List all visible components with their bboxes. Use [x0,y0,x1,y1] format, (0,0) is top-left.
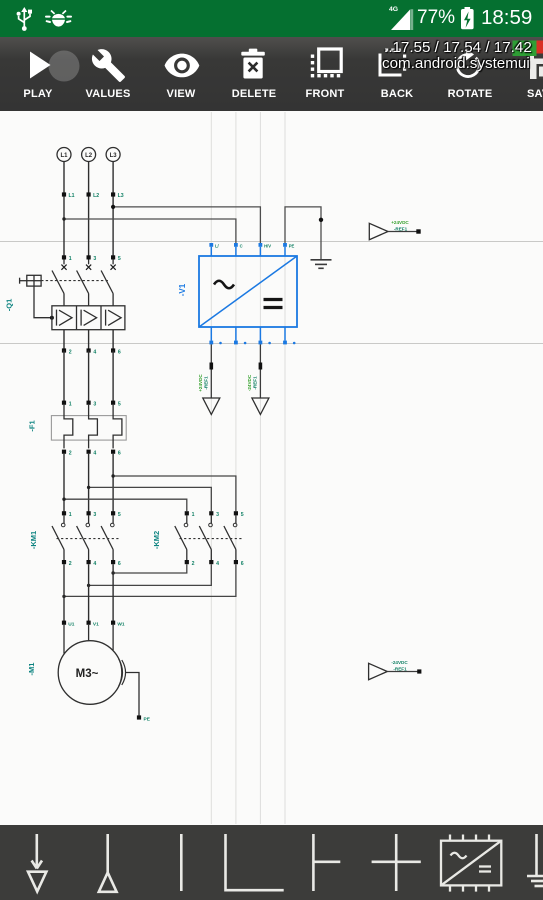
svg-text:-Q1: -Q1 [5,299,14,312]
svg-text:6: 6 [118,561,121,567]
bottom toolbar background [0,825,543,900]
Q1 linkage dashed [41,280,108,282]
wire F1 to KM1 phase 3 [112,454,114,514]
KM2 pin 1 [185,511,195,518]
bottom toolbar tee icon [313,834,340,891]
toolbar view eye icon [165,54,200,78]
KM1 pin 3 [87,511,97,518]
F1 enclosure [51,416,126,441]
circuit breaker Q1 [5,255,125,355]
KM2 pole 3 [224,515,237,560]
F1 pin 2 [62,450,72,457]
wire branch L1 to V1 pin N [62,217,236,243]
status bar right text [417,7,455,29]
F1 heater element 3 [113,405,122,449]
F1 heater element 2 [89,405,98,449]
svg-text:2: 2 [69,451,72,457]
bottom toolbar earth electrode icon [99,834,117,892]
svg-text:1: 1 [69,256,72,262]
toolbar back icon [380,49,406,76]
M1 pin V1 [87,621,100,628]
toolbar save icon partial [530,50,543,79]
svg-text:-V1: -V1 [178,283,187,296]
KM1 pin 1 [62,511,72,518]
wire KM1 to motor W [112,564,114,623]
node L3 [111,192,124,199]
wire phase L1 vertical [63,162,65,258]
KM2 pin 6 [234,560,244,567]
M1 pin W1 [111,621,125,628]
svg-text:3: 3 [93,402,96,408]
svg-text:5: 5 [118,402,121,408]
svg-text:4: 4 [216,561,219,567]
wire phase L2 vertical [88,162,90,258]
bottom toolbar corner icon [226,834,284,890]
svg-text:-F1: -F1 [28,420,37,431]
KM1 pin 4 [87,560,97,567]
svg-text:1: 1 [69,402,72,408]
status bar background [0,0,543,37]
KM2 pole 2 [199,515,212,560]
svg-text:4: 4 [93,349,96,355]
Q1 pole 2 contact [77,260,92,306]
M1 lead W [112,625,114,650]
terminal L2 [82,148,96,162]
svg-text:-24VDC: -24VDC [391,660,408,665]
Q1 pin 1 [62,255,72,262]
svg-text:6: 6 [241,561,244,567]
svg-text:1: 1 [69,512,72,518]
KM1 pole 1 [52,515,65,560]
svg-text:V1: V1 [93,622,99,628]
toolbar rotate icon [457,49,479,77]
KM2 pin 4 [209,560,219,567]
svg-text:6: 6 [118,349,121,355]
svg-text:3: 3 [93,256,96,262]
V1 top pin 3 [259,243,272,256]
svg-text:L3: L3 [110,153,118,159]
V1 top pin PE [283,243,294,256]
wire KM1 to motor U [63,564,65,623]
svg-text:L2: L2 [85,153,93,159]
wire -24VDC output [259,344,263,397]
svg-text:-REF1: -REF1 [203,376,208,390]
wire branch phase2 to KM2 pin3 [87,486,211,512]
KM1 pole 3 [101,515,114,560]
KM2 linkage dashed [180,538,244,540]
F1 pin 4 [87,450,97,457]
toolbar labels [0,88,83,100]
ground [311,260,332,269]
wire V1 PE to ground [285,207,323,260]
svg-text:-REF1: -REF1 [393,666,407,671]
status bar signal triangle [391,9,413,30]
svg-text:-REF1: -REF1 [394,226,408,231]
F1 pin 3 [87,401,97,408]
Q1 operator link wire [34,286,54,320]
svg-text:-KM2: -KM2 [152,531,161,549]
V1 top pin 1 [209,243,219,256]
potential arrow down -24VDC [247,374,269,414]
motor M1 [27,621,151,723]
Q1 trip unit box [52,306,125,330]
svg-text:3: 3 [93,512,96,518]
F1 pin 5 [111,401,121,408]
F1 heater element 1 [64,405,73,449]
svg-text:-KM1: -KM1 [29,531,38,549]
KM1 pole 2 [77,515,90,560]
M1 PE arcs [119,659,123,687]
svg-text:-24VDC: -24VDC [247,374,252,391]
M1 pin U1 [62,621,75,628]
thermal overload relay F1 [28,401,127,457]
canvas [0,111,543,825]
bottom toolbar ground icon partial [527,834,543,886]
F1 pin 6 [111,450,121,457]
Q1 pin 2 [62,330,72,356]
V1 top pin 2 [234,243,243,256]
svg-text:1: 1 [192,512,195,518]
svg-text:PE: PE [289,243,295,248]
M1 lead U [63,625,65,654]
top toolbar background [0,37,543,111]
svg-text:L2: L2 [93,193,99,199]
KM1 pin 5 [111,511,121,518]
svg-text:H/V: H/V [264,243,271,248]
wire Q1 to F1 phase 2 [88,351,90,403]
svg-text:2: 2 [69,561,72,567]
KM2 pin 3 [209,511,219,518]
Q1 pole 1 contact [52,260,67,306]
toolbar delete trash icon [241,49,264,79]
Q1 pin 5 [111,255,121,262]
wire KM2 pin4 crossover to V [87,564,211,587]
KM2 pole 1 [175,515,188,560]
svg-text:4: 4 [93,451,96,457]
overlay green highlight [513,41,537,57]
wire phase L3 vertical [112,162,114,258]
svg-text:5: 5 [118,512,121,518]
wire branch phase3 to KM2 pin5 [111,474,235,511]
KM2 pin 2 [185,560,195,567]
svg-text:2: 2 [69,349,72,355]
V1 bottom pin 2 [234,327,246,344]
Q1 pin 6 [111,330,121,356]
KM1 pin 2 [62,560,72,567]
svg-text:L1: L1 [60,153,68,159]
svg-text:5: 5 [118,256,121,262]
potential arrow down +24VDC [198,374,220,415]
svg-text:5: 5 [241,512,244,518]
F1 pin 1 [62,401,72,408]
svg-text:-REF1: -REF1 [252,376,257,390]
profiler overlay line 2 [382,55,530,72]
V1 bottom pin 1 [209,327,221,344]
toolbar front icon [311,49,341,77]
svg-text:+24VDC: +24VDC [198,374,203,392]
contactor KM1 [29,511,121,567]
overlay red bar [537,41,543,54]
V1 bottom pin 3 [259,327,271,344]
Q1 operator handle [20,275,41,286]
svg-text:4: 4 [93,561,96,567]
M1 body [58,641,122,705]
wire F1 to KM1 phase 2 [88,454,90,514]
profiler overlay line 1 [384,39,532,56]
wire Q1 to F1 phase 1 [63,351,65,403]
svg-text:L/: L/ [215,243,220,248]
svg-text:-M1: -M1 [27,663,36,676]
svg-text:C: C [240,243,243,248]
bottom toolbar ground arrow icon [28,834,46,892]
svg-text:L3: L3 [118,193,124,199]
wire branch phase1 to KM2 pin1 [62,498,187,512]
svg-text:M3~: M3~ [76,668,99,680]
svg-text:3: 3 [216,512,219,518]
svg-text:W1: W1 [117,622,125,628]
terminal L1 [57,148,71,162]
M1 PE pin [137,715,151,722]
KM1 linkage dashed [57,538,121,540]
svg-text:6: 6 [118,451,121,457]
toolbar values wrench icon [92,49,125,82]
Q1 pole 3 contact [101,260,116,306]
bottom toolbar cross icon [372,834,421,891]
KM2 pin 5 [234,511,244,518]
svg-text:U1: U1 [68,622,74,628]
wire +24VDC output [210,344,214,397]
wire KM2 pin2 crossover to W [111,564,186,575]
node L2 [87,192,100,199]
M1 lead V [88,625,90,641]
svg-text:L1: L1 [69,193,75,199]
wire F1 to KM1 phase 1 [63,454,65,514]
power supply U1 box [199,256,297,327]
toolbar play icon [30,51,80,82]
svg-text:PE: PE [144,716,151,722]
potential arrow right -24VDC [369,660,422,680]
bottom toolbar converter icon [441,835,501,892]
contactor KM2 [152,511,244,567]
status bar debug bug icon [45,11,72,27]
node L1 [62,192,75,199]
status bar battery [461,7,474,29]
M1 PE wire [126,673,139,718]
status bar USB icon [17,7,32,31]
svg-text:2: 2 [192,561,195,567]
wire KM1 to motor V [88,564,90,623]
svg-text:+24VDC: +24VDC [391,220,409,225]
Q1 pin 4 [87,330,97,356]
bottom toolbar line icon [180,834,183,891]
wire Q1 to F1 phase 3 [112,351,114,403]
wire KM2 pin6 crossover to U [62,564,236,598]
KM1 pin 6 [111,560,121,567]
terminal L3 [106,148,120,162]
potential arrow right +24VDC [369,220,420,240]
V1 bottom pin 4 [283,327,295,344]
wire branch L3 to V1 pin L [111,205,260,244]
Q1 pin 3 [87,255,97,262]
